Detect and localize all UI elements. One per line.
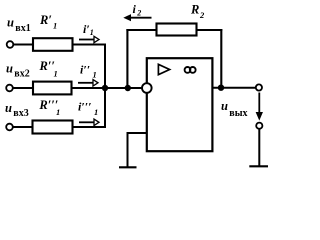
current arrow i''1	[78, 80, 98, 86]
ground left	[119, 166, 137, 168]
svg-text:u: u	[5, 101, 12, 115]
svg-text:1: 1	[93, 69, 97, 79]
wire	[13, 87, 33, 89]
svg-text:1: 1	[53, 21, 57, 31]
output terminal	[256, 84, 262, 90]
resistor R'''1	[33, 121, 73, 134]
svg-text:u: u	[6, 62, 13, 76]
output voltage arrow	[256, 93, 262, 120]
svg-text:1: 1	[56, 107, 60, 117]
svg-text:i′′: i′′	[80, 63, 90, 77]
resistor R''1	[33, 82, 72, 95]
wire	[73, 44, 107, 46]
lower output terminal	[256, 123, 262, 129]
svg-text:2: 2	[136, 9, 141, 18]
output wire	[212, 87, 255, 89]
current arrow i'''1	[79, 119, 99, 125]
svg-text:вх2: вх2	[14, 69, 29, 80]
input terminal 1	[7, 41, 14, 48]
op-amp amplifier triangle symbol	[158, 64, 169, 74]
svg-text:R′: R′	[39, 13, 52, 27]
svg-text:i′: i′	[83, 22, 90, 36]
current arrow i2	[125, 15, 152, 21]
junction node at (105,88)	[102, 85, 108, 91]
wire	[13, 126, 33, 128]
svg-text:вых: вых	[229, 108, 247, 119]
input terminal 3	[6, 124, 13, 131]
current arrow i'1	[79, 36, 99, 42]
wire feedback top right	[197, 29, 223, 31]
wire	[73, 126, 107, 128]
op-amp U1 body	[147, 58, 213, 151]
svg-text:вх3: вх3	[13, 108, 28, 119]
wire feedback top left	[126, 29, 156, 31]
svg-text:2: 2	[199, 10, 205, 20]
svg-text:u: u	[7, 15, 14, 29]
op-amp non-inverting input wire	[128, 132, 147, 134]
wire	[72, 87, 143, 89]
input terminal 2	[6, 85, 13, 92]
junction node at (127,88)	[125, 85, 131, 91]
svg-text:1: 1	[94, 107, 98, 117]
ground right	[249, 165, 268, 167]
wire vertical bus x=105	[104, 45, 106, 128]
resistor R'1	[33, 38, 73, 51]
svg-text:1: 1	[54, 68, 58, 78]
svg-text:u: u	[221, 99, 228, 113]
junction node output	[218, 85, 224, 91]
wire	[13, 44, 33, 46]
op-amp inverting input circle	[142, 83, 152, 93]
feedback right vertical wire	[220, 29, 222, 88]
wire to right ground	[258, 129, 260, 166]
svg-text:R′′: R′′	[39, 59, 55, 73]
op-amp infinity gain symbol	[185, 67, 196, 73]
svg-text:1: 1	[90, 28, 94, 37]
feedback left vertical wire	[126, 29, 128, 88]
svg-text:R: R	[190, 3, 199, 17]
wire to left ground	[127, 132, 129, 167]
resistor R2	[157, 24, 197, 36]
svg-text:i′′′: i′′′	[78, 100, 91, 114]
svg-text:вх1: вх1	[15, 23, 30, 34]
